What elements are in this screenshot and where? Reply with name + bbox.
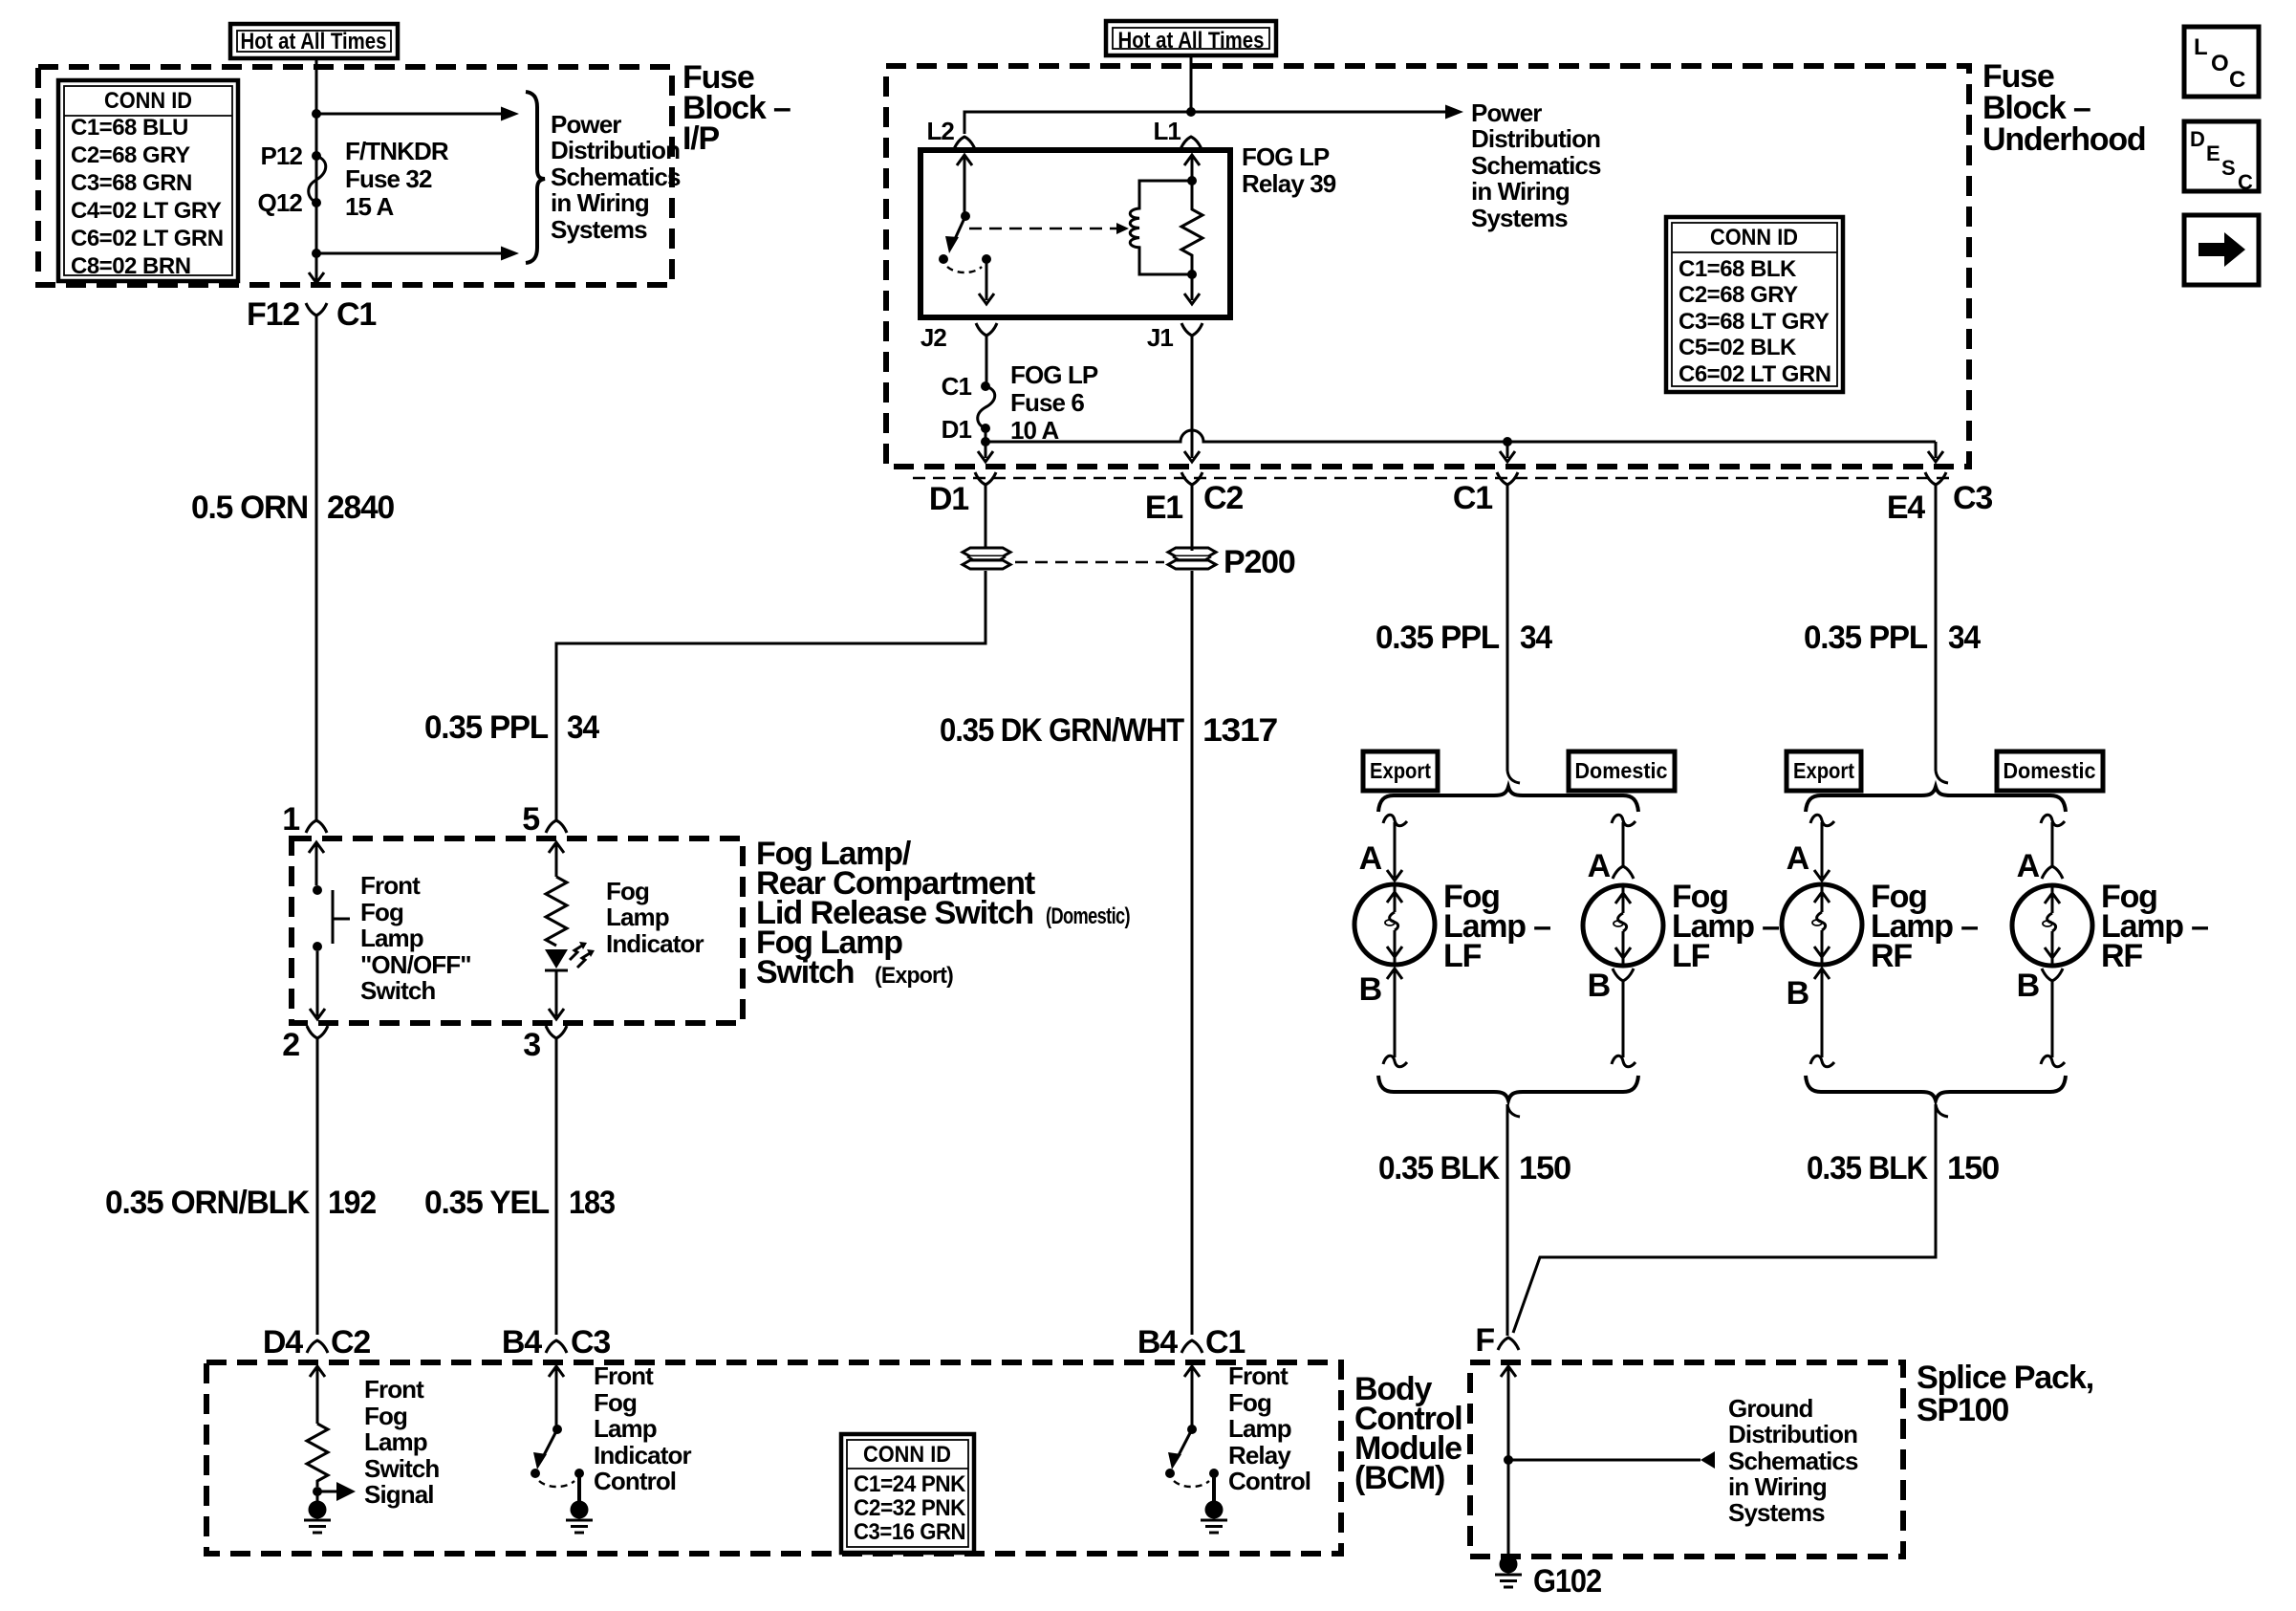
label: Body Control Module (BCM)	[1354, 1371, 1462, 1496]
svg-text:C1: C1	[336, 296, 376, 333]
fog lamp RF (export)	[1782, 884, 1862, 965]
wire D1/P200 to switch pin 5 (0.35 PPL 34)	[556, 571, 986, 820]
wire J1 down to E1	[1191, 343, 1194, 458]
svg-text:(BCM): (BCM)	[1354, 1460, 1444, 1496]
svg-text:B4: B4	[1137, 1324, 1178, 1361]
svg-text:0.35 ORN/BLK: 0.35 ORN/BLK	[105, 1185, 311, 1221]
fuse FOG LP Fuse 6 10 A	[978, 381, 995, 433]
fuse value label	[345, 137, 449, 221]
svg-text:Switch: Switch	[360, 976, 435, 1005]
LOC reference icon	[2184, 27, 2259, 97]
wire label 0.35 PPL 34 (RF)	[1804, 620, 1981, 656]
connector B4 / C1	[1137, 1324, 1245, 1361]
Y pin + wire below lamp (Domestic RF)	[2042, 969, 2063, 1057]
svg-text:0.5 ORN: 0.5 ORN	[191, 490, 308, 526]
terminal arrow + wire below lamp (Export LF)	[1387, 969, 1402, 1057]
svg-text:P12: P12	[260, 142, 302, 170]
svg-text:5: 5	[522, 801, 539, 838]
svg-text:F: F	[1475, 1322, 1494, 1359]
wire: hot feed down through fuse F/TNKDR	[315, 58, 318, 273]
junction node	[313, 1487, 322, 1496]
svg-text:(Export): (Export)	[875, 963, 953, 989]
merge hook LF	[1507, 1104, 1520, 1117]
svg-text:Switch: Switch	[364, 1454, 439, 1483]
svg-text:L2: L2	[926, 117, 954, 145]
forward arrow icon	[2184, 215, 2259, 285]
wire 0.35 YEL 183	[555, 1046, 558, 1335]
svg-text:192: 192	[328, 1185, 376, 1221]
LED fog lamp indicator	[545, 942, 595, 970]
switch S1 front fog lamp ON/OFF (pushbutton)	[313, 885, 350, 951]
label: FOG LP Relay 39	[1242, 142, 1336, 198]
Domestic tag (RF)	[1997, 751, 2103, 791]
splice pack dashed box	[1470, 1362, 1903, 1557]
wire 0.35 BLK 150 (LF)	[1506, 1104, 1509, 1336]
wire + pin hat into lamp A (Domestic LF)	[1613, 822, 1634, 879]
svg-text:A: A	[2017, 848, 2040, 884]
svg-text:34: 34	[567, 709, 599, 746]
svg-text:S: S	[2221, 156, 2236, 180]
relay switch arm	[939, 155, 991, 272]
wire: arrow to power distribution (upper)	[316, 113, 502, 116]
bus junction below fuse	[981, 437, 990, 446]
svg-text:in Wiring: in Wiring	[1471, 177, 1570, 206]
wire hook at C1 split	[1507, 771, 1520, 783]
pin L2	[926, 117, 975, 149]
svg-text:C: C	[2229, 67, 2245, 93]
resistor front fog lamp switch signal	[307, 1424, 328, 1487]
svg-text:FOG LP: FOG LP	[1010, 360, 1098, 389]
svg-text:Systems: Systems	[1471, 204, 1568, 232]
svg-text:Distribution: Distribution	[1728, 1420, 1857, 1448]
wire label 0.5 ORN 2840	[191, 490, 394, 526]
svg-text:0.35 PPL: 0.35 PPL	[1375, 620, 1499, 656]
fuse block I/P dashed box	[38, 67, 672, 285]
svg-text:Domestic: Domestic	[2004, 758, 2096, 783]
svg-text:Front: Front	[364, 1375, 424, 1404]
wire arrow to power distribution note	[1191, 105, 1463, 120]
svg-text:Distribution: Distribution	[551, 136, 680, 164]
svg-text:Control: Control	[1228, 1467, 1310, 1495]
pin 1	[282, 801, 327, 838]
svg-text:C3: C3	[1953, 480, 1992, 516]
pin J1	[1147, 323, 1202, 352]
svg-text:C3: C3	[571, 1324, 610, 1361]
svg-text:Hot at All Times: Hot at All Times	[1118, 28, 1265, 54]
note: ground distribution schematics	[1728, 1394, 1858, 1527]
merge hook RF	[1936, 1104, 1948, 1117]
label: Fog Lamp - RF (export)	[1871, 879, 1978, 974]
hot-at-all-times label box (I/P feed)	[230, 24, 398, 58]
svg-text:3: 3	[523, 1027, 540, 1063]
relay switch output to J2	[979, 263, 994, 304]
svg-text:Fuse 6: Fuse 6	[1010, 388, 1084, 417]
svg-text:Signal: Signal	[364, 1480, 434, 1509]
svg-text:D: D	[2190, 127, 2205, 151]
BCM dashed box	[206, 1362, 1341, 1554]
connector D1	[929, 472, 996, 517]
P200 link dashed	[1015, 561, 1164, 564]
svg-text:C2=32 PNK: C2=32 PNK	[854, 1495, 966, 1521]
brace split LF	[1378, 787, 1638, 812]
svg-text:C: C	[2238, 170, 2253, 194]
wire below LED + terminal arrow	[549, 970, 564, 1019]
pin 2	[282, 1026, 328, 1063]
svg-text:0.35 PPL: 0.35 PPL	[424, 709, 548, 746]
pin 5	[522, 801, 567, 838]
svg-text:Schematics: Schematics	[1471, 151, 1601, 180]
pin F	[1475, 1322, 1519, 1359]
DESC reference icon	[2184, 121, 2259, 194]
svg-text:C2=68 GRY: C2=68 GRY	[1679, 282, 1798, 308]
svg-text:B4: B4	[502, 1324, 542, 1361]
svg-text:0.35 BLK: 0.35 BLK	[1378, 1150, 1501, 1186]
svg-text:D1: D1	[929, 481, 968, 517]
connector B4 / C3	[502, 1324, 610, 1361]
svg-text:D1: D1	[942, 415, 972, 444]
svg-text:0.35 BLK: 0.35 BLK	[1807, 1150, 1929, 1186]
svg-text:A: A	[1787, 840, 1809, 877]
fog lamp switch dashed box	[292, 838, 743, 1023]
connector face dashed line	[913, 477, 1952, 480]
svg-text:E: E	[2206, 142, 2220, 165]
svg-text:P200: P200	[1224, 544, 1295, 580]
connector F12 / C1	[247, 296, 376, 333]
label: Fog Lamp / Rear Compartment Lid Release Switch	[756, 836, 1130, 991]
inline connector P200 (left half)	[963, 548, 1010, 569]
svg-text:C6=02 LT GRN: C6=02 LT GRN	[71, 226, 224, 251]
svg-text:C1=68 BLK: C1=68 BLK	[1679, 256, 1797, 282]
svg-text:RF: RF	[1871, 938, 1912, 974]
relay L1 terminal arrow	[1184, 155, 1200, 181]
svg-text:Fog: Fog	[606, 877, 649, 905]
svg-text:CONN ID: CONN ID	[1710, 225, 1798, 250]
junction node (upper)	[312, 109, 321, 119]
terminal arrow D1 out	[978, 442, 993, 462]
svg-text:Front: Front	[594, 1361, 654, 1390]
svg-text:Underhood: Underhood	[1982, 121, 2146, 158]
wire 0.35 BLK 150 (RF) to splice	[1513, 1104, 1936, 1333]
ground distribution reference arrow	[1508, 1451, 1715, 1469]
label: Fuse Block - Underhood	[1982, 58, 2146, 158]
wire label 0.35 ORN/BLK 192	[105, 1185, 376, 1221]
svg-text:Systems: Systems	[1728, 1498, 1825, 1527]
svg-text:G102: G102	[1533, 1563, 1601, 1600]
brace merge RF	[1806, 1076, 2066, 1100]
terminal arrow B4 C1 (inside BCM)	[1184, 1366, 1200, 1426]
svg-text:SP100: SP100	[1917, 1392, 2008, 1428]
brace to power distribution note	[526, 92, 545, 263]
svg-text:183: 183	[569, 1185, 615, 1221]
svg-text:F12: F12	[247, 296, 299, 333]
svg-text:FOG LP: FOG LP	[1242, 142, 1330, 171]
switch front fog lamp indicator control	[531, 1425, 584, 1487]
svg-text:Indicator: Indicator	[606, 929, 704, 958]
wire E4 C3 down to RF lamps	[1935, 492, 1938, 771]
wire to L2	[964, 112, 1191, 134]
arrowhead down at F12	[309, 272, 324, 283]
svg-text:Fog: Fog	[1228, 1388, 1271, 1417]
wire label 0.35 PPL 34 (switch feed)	[424, 709, 599, 746]
brace split RF	[1806, 787, 2066, 812]
svg-text:in Wiring: in Wiring	[551, 188, 649, 217]
terminal arrow E4 out	[1928, 442, 1943, 462]
junction node L1 feed	[1186, 107, 1196, 117]
wire: arrow to power distribution (lower)	[316, 252, 502, 255]
terminal arrow pin 1 (inside)	[309, 842, 324, 885]
svg-text:Distribution: Distribution	[1471, 124, 1600, 153]
svg-text:(Domestic): (Domestic)	[1046, 903, 1130, 929]
connector E4 / C3	[1887, 472, 1993, 526]
fuse block underhood dashed box	[886, 66, 1969, 467]
branch hook Export RF	[1810, 815, 1834, 825]
label: Front Fog Lamp Indicator Control	[594, 1361, 691, 1495]
svg-text:C2=68 GRY: C2=68 GRY	[71, 142, 190, 168]
svg-text:Front: Front	[360, 871, 421, 900]
fog lamp LF (export)	[1354, 884, 1435, 965]
relay coil resistor	[1181, 181, 1202, 274]
svg-text:C3=68 LT GRY: C3=68 LT GRY	[1679, 309, 1830, 335]
terminal arrow C1 out	[1500, 442, 1515, 462]
svg-text:Control: Control	[594, 1467, 676, 1495]
Export tag (LF)	[1363, 751, 1438, 791]
svg-text:Indicator: Indicator	[594, 1441, 691, 1469]
relay J1 terminal arrow	[1184, 274, 1200, 304]
terminal arrow + wire below lamp (Export RF)	[1814, 969, 1830, 1057]
label: Fog Lamp Indicator	[606, 877, 704, 958]
svg-text:LF: LF	[1672, 938, 1710, 974]
wire pin2 down + terminal arrow	[310, 951, 325, 1019]
svg-text:Hot at All Times: Hot at All Times	[241, 29, 387, 54]
svg-text:J2: J2	[921, 323, 947, 352]
svg-text:Systems: Systems	[551, 215, 647, 244]
fuse F/TNKDR Fuse 32 15 A	[309, 151, 326, 207]
label: Fog Lamp - LF (export)	[1443, 879, 1550, 974]
terminal arrow D4 (inside BCM)	[310, 1366, 325, 1424]
terminal arrow B4 C3 (inside BCM)	[549, 1366, 564, 1426]
label: Fog Lamp - RF (domestic)	[2101, 879, 2208, 974]
terminal arrow F (inside splice)	[1501, 1366, 1516, 1555]
svg-text:Schematics: Schematics	[1728, 1447, 1858, 1475]
svg-text:E4: E4	[1887, 490, 1925, 526]
Export tag (RF)	[1787, 751, 1861, 791]
label: Front Fog Lamp Switch Signal	[364, 1375, 439, 1509]
note: power distribution schematics (underhood)	[1471, 98, 1601, 232]
branch hook lower Domestic LF	[1612, 1056, 1635, 1066]
svg-text:C5=02 BLK: C5=02 BLK	[1679, 335, 1797, 360]
label: Fuse Block - I/P	[682, 59, 791, 157]
svg-text:Splice Pack,: Splice Pack,	[1917, 1360, 2093, 1396]
Y pin + wire below lamp (Domestic LF)	[1613, 969, 1634, 1057]
wire label 0.35 BLK 150 (RF)	[1807, 1150, 1999, 1186]
svg-text:2840: 2840	[327, 490, 394, 526]
svg-text:B: B	[1359, 971, 1382, 1008]
svg-text:C2: C2	[1203, 480, 1243, 516]
svg-text:1: 1	[282, 801, 299, 838]
svg-text:C3=16 GRN: C3=16 GRN	[854, 1519, 965, 1545]
fog lamp LF (domestic)	[1583, 885, 1663, 966]
note: power distribution schematics (I/P)	[551, 110, 681, 244]
junction node (lower)	[312, 249, 321, 258]
CONN ID table (BCM)	[841, 1434, 974, 1553]
svg-text:Relay: Relay	[1228, 1441, 1291, 1469]
svg-text:A: A	[1588, 848, 1611, 884]
label: Splice Pack, SP100	[1917, 1360, 2093, 1428]
svg-text:Schematics: Schematics	[551, 163, 681, 191]
wire 0.5 ORN 2840	[315, 323, 318, 820]
wire hot feed down to junction	[1190, 55, 1193, 112]
brace merge LF	[1378, 1076, 1638, 1100]
hot-at-all-times label box (underhood feed)	[1106, 21, 1276, 55]
svg-text:I/P: I/P	[682, 120, 719, 157]
ground G102	[1495, 1556, 1601, 1600]
feed bus with hop over J1 wire	[986, 430, 1936, 442]
svg-text:15 A: 15 A	[345, 192, 394, 221]
svg-text:F/TNKDR: F/TNKDR	[345, 137, 449, 165]
resistor (fog lamp indicator)	[546, 877, 567, 946]
svg-text:Front: Front	[1228, 1361, 1289, 1390]
fog lamp RF (domestic)	[2012, 885, 2092, 966]
svg-text:B: B	[2017, 968, 2040, 1004]
splice junction node	[1504, 1455, 1513, 1465]
relay box FOG LP Relay 39	[921, 150, 1230, 317]
signal arrow right	[317, 1482, 356, 1501]
svg-text:C1: C1	[1453, 480, 1492, 516]
svg-text:Lamp: Lamp	[364, 1427, 427, 1456]
svg-text:C1: C1	[1205, 1324, 1245, 1361]
svg-text:O: O	[2211, 51, 2229, 76]
switch front fog lamp relay control	[1165, 1425, 1219, 1487]
connector E1 / C2	[1145, 472, 1244, 526]
svg-text:0.35 YEL: 0.35 YEL	[424, 1185, 549, 1221]
connector D4 / C2	[263, 1324, 370, 1361]
branch hook Export LF	[1383, 815, 1407, 825]
terminal arrow E1 out	[1184, 451, 1200, 462]
pin L1	[1153, 117, 1202, 149]
wire 0.35 ORN/BLK 192	[316, 1046, 319, 1335]
relay coil nodes	[1187, 176, 1197, 279]
wire + terminal arrow into lamp A (Export RF)	[1814, 822, 1830, 881]
svg-text:C6=02 LT GRN: C6=02 LT GRN	[1679, 361, 1831, 387]
svg-text:Lamp: Lamp	[594, 1414, 657, 1443]
svg-text:in Wiring: in Wiring	[1728, 1472, 1827, 1501]
CONN ID table (Fuse Block I/P)	[58, 80, 238, 281]
svg-text:LF: LF	[1443, 938, 1482, 974]
wire + terminal arrow into lamp A (Export LF)	[1387, 822, 1402, 881]
svg-text:Fuse 32: Fuse 32	[345, 164, 432, 193]
terminal arrow pin 5 (inside)	[549, 842, 564, 877]
svg-text:RF: RF	[2101, 938, 2142, 974]
label: Fog Lamp - LF (domestic)	[1672, 879, 1779, 974]
svg-text:Lamp: Lamp	[360, 924, 423, 952]
fuse 6 value label	[1010, 360, 1098, 445]
svg-text:C2: C2	[331, 1324, 370, 1361]
svg-text:Ground: Ground	[1728, 1394, 1812, 1423]
label: Front Fog Lamp ON/OFF Switch	[360, 871, 471, 1005]
bus junction C1 branch	[1503, 437, 1512, 446]
relay coil	[1130, 181, 1192, 274]
svg-text:"ON/OFF": "ON/OFF"	[360, 950, 471, 979]
wire + pin hat into lamp A (Domestic RF)	[2042, 822, 2063, 879]
wire label 0.35 DK GRN/WHT 1317	[940, 712, 1277, 749]
svg-text:Export: Export	[1370, 758, 1431, 783]
svg-text:150: 150	[1519, 1150, 1570, 1186]
wire label 0.35 PPL 34 (LF)	[1375, 620, 1552, 656]
svg-text:Power: Power	[1471, 98, 1542, 127]
pin J2	[921, 323, 997, 352]
wire C1 down to LF lamps	[1506, 492, 1509, 771]
CONN ID table (underhood)	[1666, 217, 1843, 392]
relay coil link (dashed)	[969, 223, 1129, 234]
branch hook Domestic RF	[2041, 815, 2065, 825]
wire label 0.35 BLK 150 (LF)	[1378, 1150, 1570, 1186]
svg-text:Fog: Fog	[364, 1402, 407, 1430]
svg-text:Fog: Fog	[594, 1388, 637, 1417]
branch hook lower Export RF	[1810, 1056, 1834, 1066]
svg-text:A: A	[1359, 840, 1382, 877]
svg-text:D4: D4	[263, 1324, 303, 1361]
svg-text:Relay 39: Relay 39	[1242, 169, 1336, 198]
wire hook at E4 split	[1936, 771, 1948, 783]
label: Front Fog Lamp Relay Control	[1228, 1361, 1310, 1495]
svg-text:L: L	[2194, 34, 2208, 60]
branch hook lower Export LF	[1383, 1056, 1407, 1066]
ground (relay control)	[1201, 1477, 1227, 1533]
svg-text:C1=24 PNK: C1=24 PNK	[854, 1471, 966, 1497]
svg-text:C3=68 GRN: C3=68 GRN	[71, 170, 192, 196]
svg-text:C8=02 BRN: C8=02 BRN	[71, 253, 191, 279]
svg-text:E1: E1	[1145, 490, 1182, 526]
wire D1 to P200	[985, 492, 987, 551]
svg-text:J1: J1	[1147, 323, 1174, 352]
svg-text:L1: L1	[1153, 117, 1180, 145]
ground (indicator control)	[566, 1477, 593, 1533]
svg-text:C4=02 LT GRY: C4=02 LT GRY	[71, 198, 222, 224]
branch hook Domestic LF	[1612, 815, 1635, 825]
svg-text:Power: Power	[551, 110, 621, 139]
svg-text:34: 34	[1520, 620, 1552, 656]
pin 3	[523, 1026, 567, 1063]
svg-text:Export: Export	[1793, 758, 1854, 783]
svg-text:Domestic: Domestic	[1575, 758, 1668, 783]
svg-text:2: 2	[282, 1027, 299, 1063]
svg-text:Lamp: Lamp	[606, 903, 669, 931]
connector C1 (right)	[1453, 472, 1518, 516]
svg-text:CONN ID: CONN ID	[104, 88, 192, 114]
ground (switch signal)	[304, 1491, 331, 1533]
svg-text:Switch: Switch	[756, 954, 854, 991]
svg-text:B: B	[1588, 968, 1611, 1004]
branch hook lower Domestic RF	[2041, 1056, 2065, 1066]
inline connector P200 (right half)	[1168, 548, 1216, 569]
svg-text:Q12: Q12	[258, 188, 303, 217]
wire fuse D1 to bus	[985, 428, 987, 442]
wire label 0.35 YEL 183	[424, 1185, 615, 1221]
wire E1 C2 down (0.35 DK GRN/WHT 1317)	[1191, 492, 1194, 1335]
svg-text:B: B	[1787, 975, 1809, 1012]
svg-text:0.35 DK GRN/WHT: 0.35 DK GRN/WHT	[940, 712, 1184, 749]
svg-text:C1: C1	[942, 372, 972, 401]
wire J2 to fuse 6	[986, 343, 988, 386]
svg-text:150: 150	[1947, 1150, 1999, 1186]
Domestic tag (LF)	[1569, 751, 1675, 791]
svg-text:Lamp: Lamp	[1228, 1414, 1291, 1443]
svg-text:1317: 1317	[1202, 712, 1277, 749]
svg-text:CONN ID: CONN ID	[863, 1442, 951, 1468]
svg-text:34: 34	[1948, 620, 1981, 656]
svg-text:Fog: Fog	[360, 898, 403, 926]
svg-text:C1=68 BLU: C1=68 BLU	[71, 115, 188, 141]
